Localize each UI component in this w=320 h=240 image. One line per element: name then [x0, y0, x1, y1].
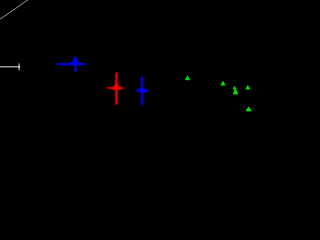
- data point R1 (red): [107, 72, 123, 104]
- faint diagonal model line top-left: [0, 0, 29, 20]
- B2 vertical error bar: [141, 77, 143, 105]
- green upper-limit triangle G1: [185, 76, 190, 80]
- R1 vertical error bar: [115, 72, 117, 104]
- R1 triangle marker: [112, 81, 122, 89]
- green upper-limit triangle G3b (lower of overlapping pair): [233, 88, 238, 94]
- white data point (clipped at left edge): horizontal error bar: [0, 66, 20, 68]
- B2 horizontal error bar: [136, 89, 149, 91]
- data point B1 (blue, with asymmetric x errors): [57, 56, 85, 72]
- green upper-limit triangle G2: [221, 81, 226, 85]
- B1 horizontal error bar: [57, 63, 85, 65]
- white data point: marker: [18, 66, 20, 68]
- data point B2 (blue): [136, 77, 149, 105]
- green upper-limit triangle G4: [246, 85, 250, 89]
- B1 vertical error bar: [74, 56, 76, 72]
- R1 horizontal error bar: [107, 87, 123, 89]
- B2 triangle marker: [137, 86, 146, 93]
- B1 triangle marker: [70, 56, 80, 65]
- green upper-limit triangle G5: [246, 107, 252, 111]
- green upper-limit triangle G3a (upper of overlapping pair): [233, 86, 236, 89]
- white data point: vertical error bar: [18, 63, 20, 70]
